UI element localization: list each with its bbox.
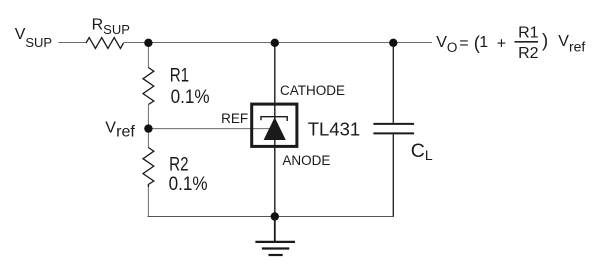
wire: bottom rail bbox=[148, 216, 394, 218]
capacitor CL top plate bbox=[373, 123, 414, 125]
capacitor CL bottom plate bbox=[373, 132, 414, 134]
wire: left vertical R1 to Vref node bbox=[147, 105, 149, 148]
resistor R1 zigzag bbox=[143, 68, 154, 105]
node C junction dot (VO / CL) bbox=[389, 39, 397, 47]
svg-text:ANODE: ANODE bbox=[282, 153, 330, 168]
node Vref junction dot bbox=[144, 124, 152, 132]
svg-text:R2: R2 bbox=[169, 153, 188, 175]
svg-text:0.1%: 0.1% bbox=[171, 86, 210, 107]
formula fraction bar bbox=[515, 41, 539, 43]
wire: left vertical R2 to bottom rail bbox=[147, 187, 149, 217]
TL431 shunt triangle bbox=[264, 117, 286, 140]
svg-text:): ) bbox=[542, 30, 548, 51]
resistor R2 zigzag bbox=[143, 148, 154, 188]
wire: ground stub bbox=[274, 217, 276, 242]
wire: Vref horizontal to REF pin bbox=[148, 128, 270, 130]
op-amp U1 TL431 box bbox=[252, 104, 297, 146]
TL431 cathode bar with end ticks bbox=[261, 117, 287, 121]
node B junction dot (top of TL431) bbox=[271, 39, 279, 47]
wire: right vertical to capacitor top plate bbox=[392, 43, 394, 123]
ground symbol bbox=[255, 241, 295, 243]
node A junction dot (top of R1) bbox=[144, 39, 152, 47]
wire: top rail left segment (VSUP to RSUP) bbox=[59, 42, 87, 44]
svg-text:R1: R1 bbox=[170, 64, 189, 86]
svg-text:CATHODE: CATHODE bbox=[280, 83, 345, 98]
svg-text:R2: R2 bbox=[518, 45, 539, 62]
svg-text:0.1%: 0.1% bbox=[169, 173, 208, 194]
wire: capacitor bottom plate to bottom rail bbox=[392, 134, 394, 217]
svg-text:1: 1 bbox=[479, 34, 488, 51]
svg-text:REF: REF bbox=[221, 111, 248, 126]
node anode/ground junction dot bbox=[271, 212, 279, 220]
svg-text:TL431: TL431 bbox=[308, 118, 360, 139]
wire: middle vertical cathode wire through TL431 bbox=[274, 43, 276, 217]
resistor RSUP zigzag bbox=[86, 38, 124, 49]
svg-text:+: + bbox=[497, 36, 506, 53]
wire: left vertical node A to R1 bbox=[147, 43, 149, 68]
wire: top rail RSUP to node C bbox=[124, 42, 433, 44]
svg-text:=: = bbox=[459, 35, 468, 52]
svg-text:R1: R1 bbox=[518, 25, 539, 42]
